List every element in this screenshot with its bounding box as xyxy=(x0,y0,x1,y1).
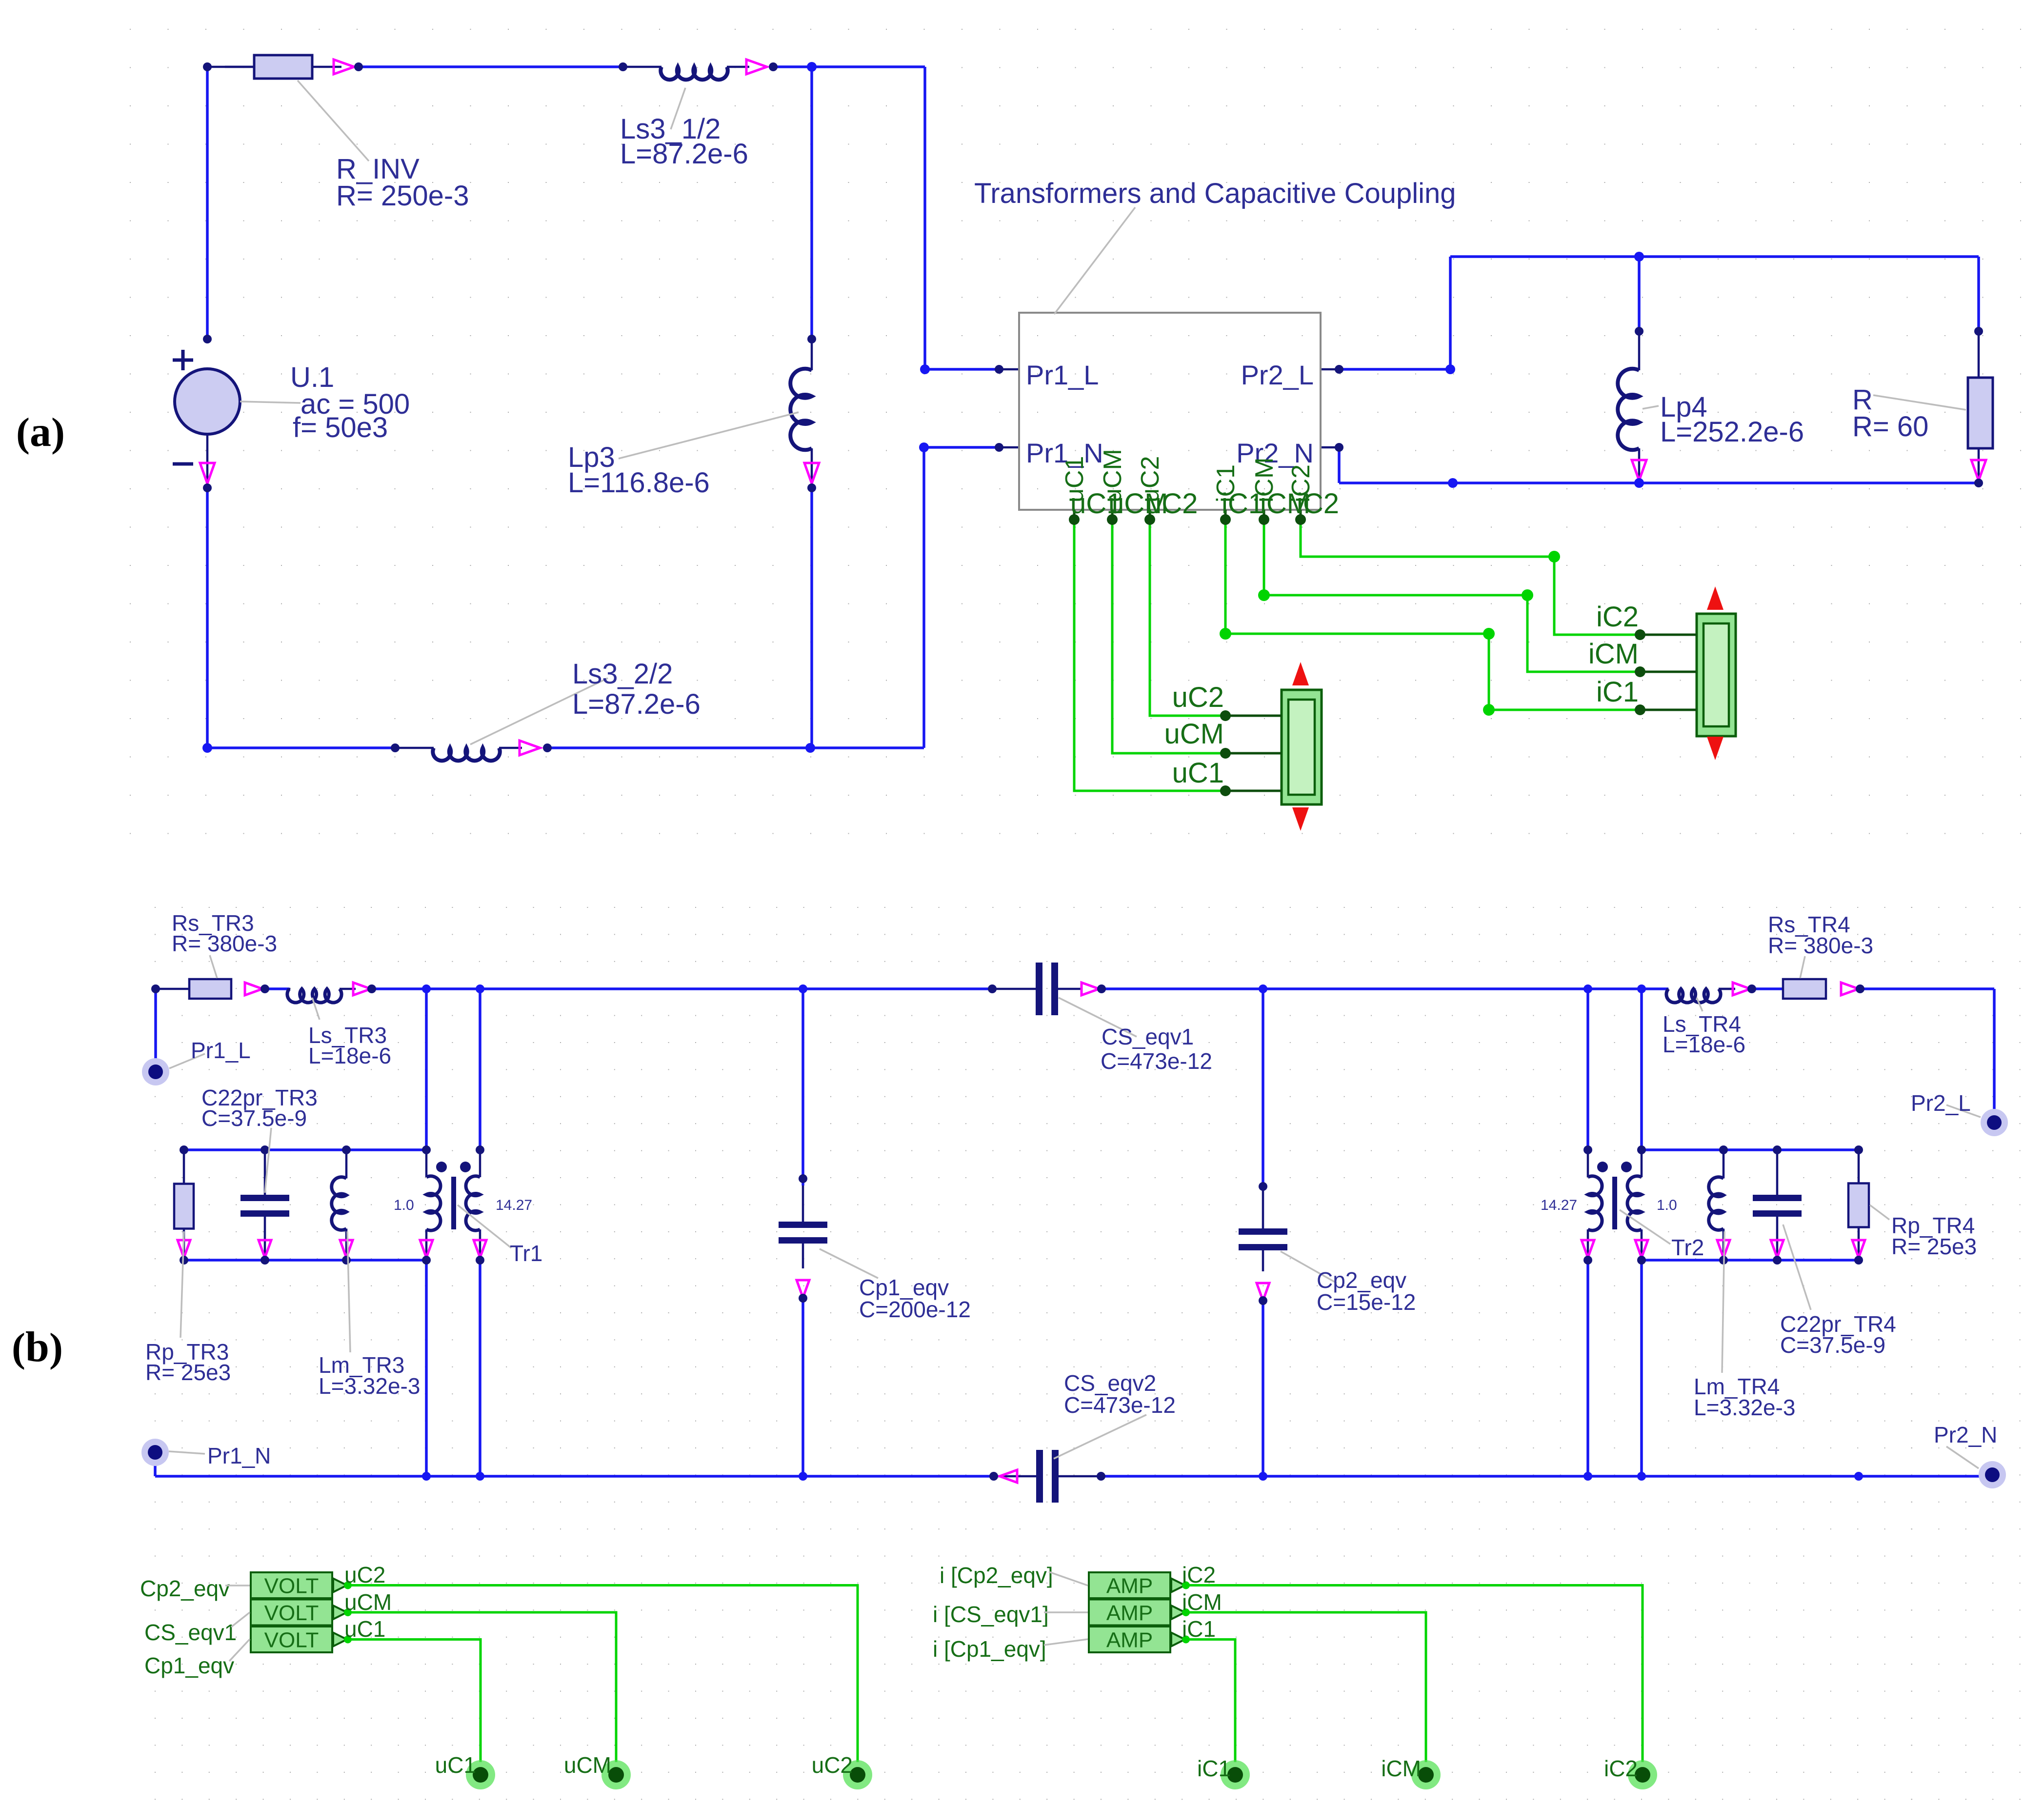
node top left corner xyxy=(203,62,212,71)
label CS_eqv1 probe xyxy=(144,1620,237,1645)
label uC1 wire xyxy=(344,1616,385,1642)
label Cp2_eqv probe xyxy=(140,1576,230,1601)
resistor R load xyxy=(1979,378,1982,448)
label Tr1 ratio 1.0 xyxy=(394,1197,414,1213)
node iC2 corner xyxy=(1548,551,1560,562)
leader line xyxy=(1946,1105,1981,1117)
node CS_eqv1 right xyxy=(1097,984,1106,993)
inductor Lp3 xyxy=(811,339,813,370)
svg-text:C=200e-12: C=200e-12 xyxy=(859,1297,971,1322)
port node Pr2_L xyxy=(1981,1109,2008,1136)
wire Tr2 left to lower rail xyxy=(1586,1260,1589,1476)
leader line xyxy=(470,678,608,744)
wire U.1 bottom lead xyxy=(206,434,209,488)
svg-text:i [Cp2_eqv]: i [Cp2_eqv] xyxy=(940,1563,1053,1588)
node Rp_TR4 bottom xyxy=(1854,1256,1863,1265)
wire Cp2_eqv drop xyxy=(1262,989,1264,1186)
node Lm_TR4 top xyxy=(1719,1145,1728,1154)
wire iC1 out xyxy=(1186,1640,1235,1763)
leader line xyxy=(240,402,301,403)
node U.1 bottom xyxy=(203,483,212,492)
capacitor C22pr_TR4 xyxy=(1776,1150,1779,1195)
node Tr1 lower rail s xyxy=(476,1472,484,1481)
pin stub iC2 xyxy=(1300,510,1302,520)
wire iC2 out xyxy=(1186,1586,1643,1763)
wire Lp3 branch lower xyxy=(810,488,813,748)
wire Lp4 drop xyxy=(1638,257,1641,331)
label Rp_TR4 xyxy=(1891,1213,1977,1259)
wire Pr2_N down xyxy=(1338,447,1341,483)
wire Rs_TR3 to Ls_TR3 xyxy=(265,987,289,990)
svg-text:R= 250e-3: R= 250e-3 xyxy=(336,180,469,212)
svg-text:C=37.5e-9: C=37.5e-9 xyxy=(201,1105,307,1131)
node uC1 anchor xyxy=(1220,785,1231,796)
node Rs_TR3 right xyxy=(261,984,269,993)
node uC2 xyxy=(843,1760,872,1789)
label Rs_TR3 xyxy=(172,910,277,956)
pin stub uC1 xyxy=(1073,510,1076,520)
label node uCM xyxy=(564,1752,611,1778)
stub iC1 to probe xyxy=(1640,709,1697,711)
pin node uC1 xyxy=(1069,514,1080,525)
ammeter 1 xyxy=(1089,1572,1170,1598)
label Lp3 xyxy=(568,442,710,499)
wire Pr2_L riser up xyxy=(1449,257,1452,369)
node lower rail extra xyxy=(1854,1472,1863,1481)
leader line xyxy=(619,412,799,459)
wire iC2 net xyxy=(1301,520,1640,635)
svg-text:CS_eqv1: CS_eqv1 xyxy=(1102,1024,1194,1049)
node Cp1_eqv top xyxy=(799,1174,807,1183)
wire iCM net xyxy=(1264,520,1640,672)
svg-text:iC2: iC2 xyxy=(1596,601,1639,633)
voltmeter 1 xyxy=(251,1572,332,1598)
leader line xyxy=(180,1231,184,1338)
resistor Rp_TR4 xyxy=(1858,1184,1860,1227)
wire Pr2_N stub xyxy=(1321,446,1339,449)
stub uC1 to probe xyxy=(1225,790,1282,792)
wire Tr2 left riser xyxy=(1586,989,1589,1150)
leader line xyxy=(1946,1446,1979,1468)
leader line xyxy=(312,998,320,1020)
node iC1 corner a xyxy=(1220,628,1231,640)
wire Tr1 primary riser xyxy=(425,989,428,1150)
node Rp_TR3 bottom xyxy=(180,1256,188,1265)
capacitor C22pr_TR3 xyxy=(264,1150,266,1195)
node Lm_TR3 top xyxy=(342,1145,351,1154)
wire top rail right loop xyxy=(1450,255,1979,258)
wire Tr1 parallel top rail xyxy=(184,1148,426,1151)
wire to Pr1_L node xyxy=(154,989,157,1072)
label Ls_TR3 xyxy=(308,1023,391,1068)
node uCM xyxy=(601,1760,631,1789)
svg-text:L=252.2e-6: L=252.2e-6 xyxy=(1660,416,1804,448)
node iC2 xyxy=(1628,1760,1657,1789)
node CS_eqv2 left xyxy=(989,1472,998,1481)
label Tr2 xyxy=(1671,1235,1704,1260)
node R bottom xyxy=(1974,479,1983,487)
node Lm_TR3 bottom xyxy=(342,1256,351,1265)
svg-text:Pr1_L: Pr1_L xyxy=(191,1038,251,1063)
red arrow up i-probe xyxy=(1707,586,1723,610)
node Cp1_eqv rail bottom xyxy=(799,1472,807,1481)
svg-text:iC2: iC2 xyxy=(1604,1756,1638,1781)
pin node uCM xyxy=(1107,514,1118,525)
capacitor CS_eqv2 xyxy=(994,1475,1036,1478)
wire uC2 net xyxy=(1150,520,1225,716)
leader line xyxy=(1870,1205,1889,1220)
label Rp_TR3 xyxy=(145,1339,231,1385)
pin stub uC2 xyxy=(1149,510,1151,520)
svg-text:14.27: 14.27 xyxy=(496,1197,532,1213)
node Pr2_L riser xyxy=(1445,364,1455,374)
node C22pr_TR4 top xyxy=(1773,1145,1782,1154)
wire U.1 top to R_INV xyxy=(207,66,254,68)
svg-text:R= 380e-3: R= 380e-3 xyxy=(172,931,277,956)
node R top xyxy=(1974,327,1983,336)
inductor Lp4 xyxy=(1638,331,1641,370)
label uC2 wire xyxy=(344,1562,385,1587)
wire Tr1 left to lower rail xyxy=(425,1260,428,1476)
svg-text:L=87.2e-6: L=87.2e-6 xyxy=(572,688,701,720)
label R_INV xyxy=(336,153,469,212)
wire CS_eqv1 to Tr2 xyxy=(1102,987,1642,990)
port node Pr1_L xyxy=(142,1058,169,1085)
voltage probe scope xyxy=(1282,690,1322,804)
svg-text:iCM: iCM xyxy=(1182,1589,1222,1615)
leader line xyxy=(169,1054,205,1068)
node iC2 anchor xyxy=(1635,629,1645,640)
node Pr1_N corner xyxy=(919,442,929,452)
capacitor CS_eqv1 xyxy=(992,988,1036,990)
svg-text:iCM: iCM xyxy=(1381,1756,1421,1781)
svg-text:(a): (a) xyxy=(16,408,65,456)
svg-text:iC1: iC1 xyxy=(1596,676,1639,708)
node Rs_TR4 right xyxy=(1856,984,1864,993)
node Lp3 bottom xyxy=(807,483,816,492)
svg-text:f= 50e3: f= 50e3 xyxy=(293,412,388,443)
wire Cp1_eqv to lower rail xyxy=(802,1300,804,1476)
node Lm_TR4 bottom xyxy=(1719,1256,1728,1265)
wire uCM out xyxy=(348,1612,616,1762)
label i Cp1_eqv probe xyxy=(933,1636,1046,1662)
svg-text:C=473e-12: C=473e-12 xyxy=(1101,1048,1212,1074)
label Tr2 ratio 1.0 xyxy=(1657,1197,1677,1213)
label CS_eqv2 xyxy=(1064,1370,1176,1418)
node iCM anchor xyxy=(1635,666,1645,677)
label Ls3_1/2 xyxy=(620,113,748,170)
svg-text:Ls3_2/2: Ls3_2/2 xyxy=(572,658,673,690)
label Pr2_N xyxy=(1934,1422,1997,1447)
leader line xyxy=(210,955,217,978)
port node Pr2_N xyxy=(1979,1461,2006,1488)
wire Tr1 right to lower rail xyxy=(479,1260,481,1476)
wire Pr2_L to riser xyxy=(1339,368,1450,371)
svg-text:(b): (b) xyxy=(12,1324,63,1371)
transformer Tr1 xyxy=(425,1150,428,1177)
svg-text:uC1: uC1 xyxy=(435,1752,476,1778)
wire Cp2_eqv to lower rail xyxy=(1262,1301,1264,1476)
wire Lp3 branch upper xyxy=(810,67,813,339)
leader line xyxy=(1059,998,1137,1037)
wire riser to Pr1_N xyxy=(922,447,925,748)
node Tr1 p-bottom xyxy=(422,1256,431,1265)
leader line xyxy=(671,88,685,129)
leader line xyxy=(1054,207,1135,314)
wire Cp1_eqv drop xyxy=(802,989,804,1185)
wire uC1 out xyxy=(348,1640,481,1763)
svg-text:1.0: 1.0 xyxy=(394,1197,414,1213)
leader line xyxy=(1783,1225,1811,1310)
wire to Pr1_L port xyxy=(925,368,999,371)
node iCM xyxy=(1411,1760,1441,1789)
label Pr1_N xyxy=(207,1443,271,1468)
label uC1 at probe xyxy=(1172,757,1224,789)
pin stub iCM xyxy=(1263,510,1265,520)
label iC1 at probe xyxy=(1596,676,1639,708)
voltage source U.1 xyxy=(175,369,240,434)
node Cp2_eqv rail bottom xyxy=(1259,1472,1267,1481)
label R load xyxy=(1852,384,1928,442)
leader line xyxy=(1054,1415,1146,1459)
node uCM anchor xyxy=(1220,748,1231,759)
leader line xyxy=(1697,998,1703,1011)
label Lm_TR3 xyxy=(319,1352,420,1399)
label C22pr_TR4 xyxy=(1780,1311,1896,1358)
port label Pr2_L xyxy=(1241,360,1314,390)
wire iC1 net xyxy=(1225,520,1640,710)
leader line xyxy=(169,1451,205,1454)
wire Tr1 secondary riser xyxy=(479,989,481,1150)
svg-text:iC1: iC1 xyxy=(1197,1756,1231,1781)
node Cp2_eqv rail top xyxy=(1259,984,1267,993)
node Tr1 top rail p xyxy=(422,984,431,993)
node Tr1 s-bottom xyxy=(476,1256,484,1265)
node Ls3_1/2 left xyxy=(619,62,627,71)
svg-text:Transformers and Capacitive Co: Transformers and Capacitive Coupling xyxy=(974,178,1456,209)
node CS_eqv1 left xyxy=(988,984,997,993)
resistor Rs_TR4 xyxy=(1783,988,1826,990)
leader line xyxy=(1800,956,1805,978)
wire R_INV to Ls3_1/2 xyxy=(359,65,626,68)
wire Tr1 parallel bottom rail xyxy=(184,1259,426,1262)
label uC2 at probe xyxy=(1172,682,1224,713)
wire Tr2 to Ls_TR4 xyxy=(1642,987,1668,990)
wire R load drop xyxy=(1977,257,1980,331)
label U.1 xyxy=(290,361,410,443)
svg-text:AMP: AMP xyxy=(1106,1628,1153,1652)
node Rp_TR3 top xyxy=(180,1145,188,1154)
wire Tr2 right to lower rail xyxy=(1640,1260,1643,1476)
node iC1 corner b xyxy=(1483,628,1495,640)
node C22pr_TR4 bottom xyxy=(1773,1256,1782,1265)
label iCM at probe xyxy=(1588,638,1639,670)
svg-text:Pr2_L: Pr2_L xyxy=(1911,1090,1971,1116)
node iC1 corner c xyxy=(1483,704,1495,716)
svg-text:iC2: iC2 xyxy=(1297,488,1339,520)
svg-text:uC2: uC2 xyxy=(812,1752,853,1778)
svg-text:uCM: uCM xyxy=(1164,718,1224,750)
node Tr2 top rail p xyxy=(1583,984,1592,993)
svg-text:14.27: 14.27 xyxy=(1541,1197,1577,1213)
svg-text:uC2: uC2 xyxy=(344,1562,385,1587)
node iC1 xyxy=(1221,1760,1250,1789)
stub iCM to probe xyxy=(1640,671,1697,673)
svg-text:C=473e-12: C=473e-12 xyxy=(1064,1392,1176,1418)
red arrow up u-probe xyxy=(1292,662,1309,685)
svg-text:R= 25e3: R= 25e3 xyxy=(145,1360,231,1385)
svg-text:Tr2: Tr2 xyxy=(1671,1235,1704,1260)
label Lm_TR4 xyxy=(1694,1374,1795,1420)
wire iCM out xyxy=(1186,1612,1426,1762)
wire Pr1_L corner to Rs_TR3 xyxy=(156,988,189,990)
svg-text:C=37.5e-9: C=37.5e-9 xyxy=(1780,1332,1885,1358)
label node iC2 xyxy=(1604,1756,1638,1781)
wire Ls3_1/2 to Pr1_L riser xyxy=(773,65,925,68)
node C22pr_TR3 bottom xyxy=(261,1256,269,1265)
label i CS_eqv1 probe xyxy=(933,1602,1049,1627)
wire Ls_TR3 to CS_eqv1 xyxy=(372,987,992,990)
node Tr2 s-top xyxy=(1637,1145,1646,1154)
wire bottom rail right loop xyxy=(1339,482,1979,484)
label Tr1 ratio 14.27 xyxy=(496,1197,532,1213)
svg-text:Pr1_N: Pr1_N xyxy=(207,1443,271,1468)
label node iC1 xyxy=(1197,1756,1231,1781)
wire Tr2 right riser xyxy=(1640,989,1643,1150)
node C22pr_TR3 top xyxy=(261,1145,269,1154)
svg-text:VOLT: VOLT xyxy=(264,1628,319,1652)
node Tr2 p-bottom xyxy=(1583,1256,1592,1265)
wire Pr2_L stub xyxy=(1321,368,1339,371)
wire lower rail right xyxy=(1101,1475,1992,1478)
svg-text:iC1: iC1 xyxy=(1182,1616,1216,1642)
node U.1 top xyxy=(203,335,212,343)
node Cp1_eqv bottom xyxy=(799,1294,807,1303)
node Lp3 top xyxy=(807,335,816,343)
leader line xyxy=(1620,1210,1670,1244)
node Tr1 lower rail p xyxy=(422,1472,431,1481)
inductor Ls_TR4 xyxy=(1667,988,1670,990)
svg-text:AMP: AMP xyxy=(1106,1574,1153,1598)
node Tr2 top rail s xyxy=(1637,984,1646,993)
node Tr2 s-bottom xyxy=(1637,1256,1646,1265)
leader line xyxy=(1044,1572,1088,1645)
port label Pr1_N xyxy=(1026,438,1103,468)
label Lp4 xyxy=(1660,391,1804,448)
capacitor Cp1_eqv xyxy=(802,1185,804,1222)
node uC1 xyxy=(466,1760,495,1789)
node Tr1 top rail s xyxy=(476,984,484,993)
svg-text:uC2: uC2 xyxy=(1146,488,1198,520)
leader line xyxy=(225,1586,250,1661)
leader line xyxy=(458,1205,511,1248)
svg-text:iC2: iC2 xyxy=(1182,1562,1216,1587)
node Tr1 p-top xyxy=(422,1145,431,1154)
voltmeter 3 xyxy=(251,1626,332,1652)
wire Ls_TR4 to Rs_TR4 xyxy=(1752,987,1783,990)
svg-text:Cp1_eqv: Cp1_eqv xyxy=(144,1653,234,1678)
port label Pr1_L xyxy=(1026,360,1099,390)
pin node iC2 xyxy=(1295,514,1306,525)
svg-text:L=3.32e-3: L=3.32e-3 xyxy=(1694,1395,1795,1420)
leader line xyxy=(1722,1231,1724,1373)
label iC2 at probe xyxy=(1596,601,1639,633)
svg-text:VOLT: VOLT xyxy=(264,1574,319,1598)
svg-text:L=87.2e-6: L=87.2e-6 xyxy=(620,138,748,170)
wire Pr1_N stub down xyxy=(154,1462,157,1476)
node top rail junction xyxy=(807,62,817,72)
node Lp3 bottom rail xyxy=(805,743,815,753)
svg-text:i [CS_eqv1]: i [CS_eqv1] xyxy=(933,1602,1049,1627)
wire left vertical upper xyxy=(206,67,209,339)
red arrow down u-probe xyxy=(1292,807,1309,831)
svg-text:uC1: uC1 xyxy=(344,1616,385,1642)
ammeter 2 xyxy=(1089,1600,1170,1626)
transformer Tr2 xyxy=(1587,1150,1589,1177)
pin node iC1 xyxy=(1220,514,1231,525)
node Lp4 top xyxy=(1635,327,1643,336)
node iCM corner b xyxy=(1522,589,1533,601)
node Pr2_N port xyxy=(1335,443,1343,452)
voltmeter 2 xyxy=(251,1600,332,1626)
label Pr2_L xyxy=(1911,1090,1971,1116)
node after R_INV xyxy=(354,62,363,71)
label Cp1_eqv probe xyxy=(144,1653,234,1678)
inductor Ls_TR3 xyxy=(289,988,290,990)
leader line xyxy=(1643,406,1659,409)
stub uC2 to probe xyxy=(1225,715,1282,717)
node Tr2 lower rail s xyxy=(1637,1472,1646,1481)
wire uCM net xyxy=(1112,520,1225,753)
svg-text:R= 380e-3: R= 380e-3 xyxy=(1768,933,1873,958)
red arrow down i-probe xyxy=(1707,737,1723,760)
svg-text:uCM: uCM xyxy=(344,1589,392,1615)
node Tr2 p-top xyxy=(1583,1145,1592,1154)
pin stub iC1 xyxy=(1224,510,1227,520)
wire uC2 out xyxy=(348,1586,858,1763)
node CS_eqv2 right xyxy=(1097,1472,1105,1481)
wire Rs_TR4 to Pr2_L corner xyxy=(1860,987,1994,990)
svg-text:L=18e-6: L=18e-6 xyxy=(1663,1032,1745,1057)
label Ls_TR4 xyxy=(1663,1011,1745,1057)
resistor Rp_TR3 xyxy=(183,1184,185,1229)
wire down to Pr2_L node xyxy=(1993,989,1996,1123)
label CS_eqv1 xyxy=(1101,1024,1212,1074)
svg-text:iCM: iCM xyxy=(1588,638,1639,670)
leader line xyxy=(265,1128,271,1193)
inductor Lm_TR3 xyxy=(345,1150,348,1179)
svg-text:R= 25e3: R= 25e3 xyxy=(1891,1234,1977,1259)
leader line xyxy=(820,1249,878,1278)
current probe scope xyxy=(1697,614,1736,736)
node Rp_TR4 top xyxy=(1854,1145,1863,1154)
node bottom left corner xyxy=(202,743,212,753)
ammeter 3 xyxy=(1089,1626,1170,1652)
node Lp4 rail xyxy=(1634,252,1644,261)
wire uC1 net xyxy=(1074,520,1225,791)
label iC2 wire xyxy=(1182,1562,1216,1587)
leader line xyxy=(1873,395,1966,410)
svg-text:L=116.8e-6: L=116.8e-6 xyxy=(568,467,710,499)
label Pr1_L xyxy=(191,1038,251,1063)
wire lower rail left xyxy=(155,1475,994,1478)
svg-text:Tr1: Tr1 xyxy=(510,1241,542,1266)
svg-text:CS_eqv1: CS_eqv1 xyxy=(144,1620,237,1645)
node Ls3_1/2 right xyxy=(769,62,778,71)
svg-text:uCM: uCM xyxy=(564,1752,611,1778)
pin stub uCM xyxy=(1111,510,1114,520)
node bottom rail jct xyxy=(1448,478,1458,488)
